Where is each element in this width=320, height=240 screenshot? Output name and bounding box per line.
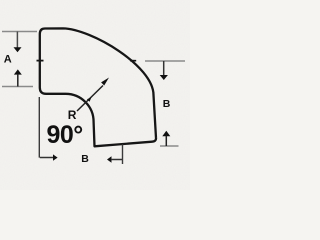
svg-text:B: B [81, 153, 89, 165]
svg-text:90°: 90° [47, 121, 83, 149]
svg-text:A: A [4, 54, 12, 66]
svg-text:B: B [163, 98, 171, 110]
